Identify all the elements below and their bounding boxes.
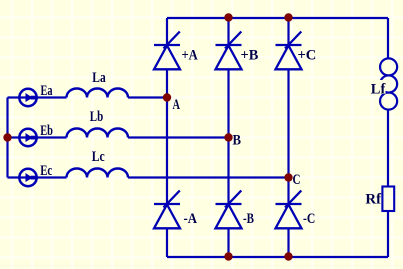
wire phase a to node A <box>128 96 167 98</box>
inductor Lb <box>67 129 129 138</box>
svg-text:-A: -A <box>184 211 198 227</box>
svg-text:+B: +B <box>241 47 259 63</box>
node A <box>163 93 171 101</box>
svg-text:A: A <box>173 97 181 113</box>
thyristor +C <box>276 32 302 70</box>
svg-text:Lc: Lc <box>92 149 105 165</box>
wire right rail top <box>387 18 389 59</box>
thyristor -C <box>276 191 302 229</box>
wire phase b to node B <box>128 136 229 138</box>
node bottom bus B <box>224 252 232 260</box>
svg-text:Ea: Ea <box>41 83 53 99</box>
node bottom bus C <box>284 252 292 260</box>
thyristor +A <box>154 32 180 70</box>
wire right rail bottom <box>387 212 389 257</box>
svg-text:+A: +A <box>182 47 198 63</box>
wire phase c row <box>8 176 67 178</box>
wire column C <box>287 18 289 45</box>
wire right rail mid <box>387 109 389 186</box>
thyristor -A <box>154 191 180 229</box>
wire top bus <box>167 17 388 19</box>
source Ec <box>19 169 37 186</box>
wire left rail <box>6 98 8 178</box>
svg-text:-C: -C <box>303 211 315 227</box>
node top bus B <box>224 13 232 21</box>
thyristor +B <box>216 32 242 70</box>
wire bottom bus <box>167 256 388 258</box>
svg-text:Lb: Lb <box>90 109 103 125</box>
svg-text:Rf: Rf <box>365 191 382 207</box>
svg-text:-B: -B <box>243 211 254 227</box>
node left rail junction <box>3 133 11 141</box>
node B <box>224 133 232 141</box>
node C <box>284 173 292 181</box>
inductor La <box>67 89 129 98</box>
svg-text:+C: +C <box>298 47 317 63</box>
resistor Rf <box>382 187 394 212</box>
wire phase a row <box>8 96 67 98</box>
label Lf background <box>369 80 386 94</box>
thyristor -B <box>216 191 242 229</box>
inductor Lc <box>67 169 129 178</box>
source Eb <box>19 129 37 146</box>
wire column B <box>227 18 229 45</box>
svg-text:C: C <box>293 172 301 188</box>
source Ea <box>19 89 37 106</box>
svg-text:Lf: Lf <box>371 81 386 97</box>
wire phase c to node C <box>128 176 289 178</box>
wire column A <box>166 18 168 45</box>
svg-text:B: B <box>233 133 242 149</box>
svg-text:La: La <box>92 70 106 86</box>
inductor Lf <box>380 58 397 75</box>
node top bus C <box>284 13 292 21</box>
wire phase b row <box>8 136 67 138</box>
svg-text:Ec: Ec <box>40 163 52 179</box>
svg-text:Eb: Eb <box>40 123 53 139</box>
